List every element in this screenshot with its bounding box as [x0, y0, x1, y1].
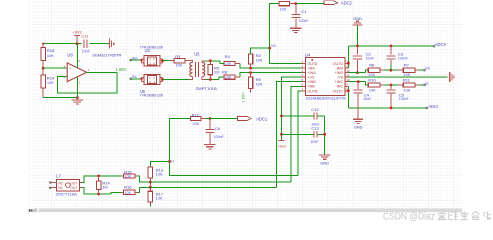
svg-text:R16: R16: [124, 184, 132, 189]
wire O to R13: [150, 162, 169, 167]
resistor R11: [398, 77, 418, 92]
wire +VS to +3v3: [282, 77, 302, 140]
junction +INA row: [249, 71, 252, 74]
svg-text:NC: NC: [58, 186, 63, 190]
scrollbar strip bottom: [29, 208, 462, 212]
wire row 187 to +INB: [150, 186, 276, 188]
capacitor C11: [81, 34, 90, 54]
svg-text:R5: R5: [214, 65, 220, 70]
label U5: [194, 52, 200, 57]
svg-text:ADC1: ADC1: [256, 116, 268, 121]
wire O-net vertical: [170, 119, 299, 176]
wire op-amp ground pin: [76, 77, 78, 98]
wire L7 bottom rail: [83, 188, 121, 194]
svg-text:NC: NC: [58, 181, 63, 185]
svg-text:+INB: +INB: [307, 80, 316, 84]
resistor R17: [148, 191, 164, 206]
junction R1/C1: [294, 2, 297, 5]
wire C13 row: [282, 133, 325, 135]
resistor R8: [219, 69, 240, 79]
svg-text:C11: C11: [81, 34, 89, 39]
wire R11 to I0 stub: [418, 84, 425, 86]
wire C12/C13 join to ground: [323, 116, 326, 155]
svg-text:-IND: -IND: [335, 66, 343, 70]
svg-text:ZMPT101B: ZMPT101B: [196, 86, 218, 91]
wire rail down to OUTD/-IND: [347, 46, 349, 68]
svg-text:U5: U5: [194, 52, 200, 57]
svg-text:10K: 10K: [403, 88, 410, 92]
junction row182: [149, 181, 152, 184]
wire -INC/OUTC down to bottom rail: [347, 86, 349, 108]
junction U3 to R3: [161, 59, 164, 62]
capacitor C4: [354, 82, 372, 108]
node R18/R19 junction: [42, 67, 45, 70]
junction O: [168, 160, 171, 163]
svg-text:10K: 10K: [156, 172, 163, 176]
wire secondary bottom rail: [205, 78, 219, 81]
connector L7 ZMCT118A: [48, 180, 82, 191]
svg-text:OUTC: OUTC: [333, 89, 344, 93]
resistor R19: [41, 68, 55, 97]
resistor R9: [248, 73, 263, 93]
svg-text:R8: R8: [222, 69, 228, 74]
wire OUTA row: [270, 62, 302, 64]
svg-text:-INC: -INC: [335, 85, 343, 89]
junction C2/+IND row: [356, 71, 359, 74]
wire R7 to V0 stub: [418, 69, 425, 71]
resistor R3: [170, 54, 190, 68]
svg-text:10nF: 10nF: [310, 140, 319, 144]
power GND port top: [352, 16, 362, 25]
svg-text:OUTD: OUTD: [333, 62, 344, 66]
wire top rail +3V3 to C11: [43, 43, 109, 45]
svg-text:1.65V: 1.65V: [240, 92, 245, 103]
net label ADCI: [428, 104, 438, 109]
svg-text:ZMCT118A: ZMCT118A: [56, 191, 78, 196]
svg-text:+INC: +INC: [335, 80, 344, 84]
label ZMCT118A: [56, 191, 78, 196]
svg-text:10K: 10K: [47, 54, 54, 58]
ground right of C11: [109, 39, 113, 49]
svg-text:10K: 10K: [47, 81, 54, 85]
svg-text:CSDN @Diaz: CSDN @Diaz: [383, 211, 435, 222]
junction -INA row: [249, 67, 252, 70]
capacitor C12: [311, 107, 320, 126]
wire to ADC2 flag: [296, 3, 324, 5]
svg-text:10K: 10K: [369, 88, 376, 92]
net stub JN+: [130, 59, 143, 61]
junction R14 top: [97, 175, 100, 178]
label SGM321YN5/TR: [92, 53, 121, 58]
svg-text:-VS: -VS: [337, 76, 344, 80]
svg-text:100nF: 100nF: [398, 56, 409, 60]
wire GND stem to rail: [356, 25, 358, 46]
resistor R13: [148, 167, 164, 191]
svg-text:C12: C12: [311, 107, 319, 112]
svg-text:300: 300: [214, 71, 220, 75]
svg-text:10K: 10K: [225, 76, 232, 80]
svg-text:R12: R12: [192, 112, 200, 117]
net label JN+: [131, 55, 139, 60]
junction R10/R11/C5: [390, 84, 393, 87]
capacitor C1: [291, 4, 309, 28]
label U8: [67, 53, 73, 58]
svg-text:R6: R6: [369, 63, 375, 68]
net label 1.65V vertical: [240, 92, 245, 103]
svg-text:OUTB: OUTB: [307, 89, 318, 93]
svg-text:10K: 10K: [125, 191, 132, 195]
wire V0 to R2 top: [251, 48, 270, 54]
svg-text:10K: 10K: [125, 174, 132, 178]
svg-text:U4: U4: [305, 52, 311, 57]
svg-text:ADC2: ADC2: [341, 0, 353, 5]
ground below op-amp U8: [72, 98, 84, 104]
svg-text:10nF: 10nF: [366, 56, 375, 60]
junction OUTC: [347, 90, 350, 93]
wire +IND row jog to R6: [349, 70, 369, 72]
svg-text:-INA: -INA: [307, 66, 315, 70]
wire bottom rail to ADCI: [348, 107, 428, 109]
svg-text:+3v3: +3v3: [277, 143, 286, 148]
svg-text:10K: 10K: [279, 7, 286, 11]
wire op-amp output / feedback loop: [58, 72, 117, 93]
ground below C13: [319, 155, 331, 165]
svg-text:OUTA: OUTA: [307, 62, 318, 66]
svg-text:10nF: 10nF: [363, 97, 372, 101]
wire V0 vertical: [270, 4, 279, 64]
net label V0 right: [425, 65, 431, 70]
wire row 182 to -INB: [150, 181, 290, 183]
svg-text:+IND: +IND: [335, 71, 344, 75]
ground below C6: [204, 145, 216, 149]
wire top rail to ADCV: [348, 45, 435, 47]
svg-text:JN-: JN-: [131, 74, 138, 79]
wire R10 to R11: [383, 84, 398, 86]
label TT44100086-1300 (U6): [140, 94, 163, 98]
svg-text:JN+: JN+: [131, 55, 139, 60]
connector U6: [142, 74, 163, 84]
connector U3: [142, 56, 163, 66]
op-amp U4 SGM8634XS14/TR: [302, 52, 350, 95]
wire secondary top rail: [205, 59, 220, 62]
svg-text:V0: V0: [425, 65, 431, 70]
resistor R10: [368, 77, 383, 92]
svg-text:OUT: OUT: [70, 181, 77, 185]
label TT44100086-1300 (U3): [140, 46, 163, 50]
power +3V3 top-left: [72, 30, 82, 44]
junction C5/bottom rail: [390, 107, 393, 110]
resistor R5: [208, 61, 220, 80]
svg-text:ADCV: ADCV: [435, 42, 447, 47]
svg-text:1.65V: 1.65V: [116, 67, 127, 72]
junction row187: [149, 186, 152, 189]
resistor R4: [220, 54, 240, 66]
svg-text:R11: R11: [403, 77, 411, 82]
net flag ADC1: [238, 116, 268, 121]
svg-text:C13: C13: [311, 126, 319, 131]
svg-text:GND: GND: [354, 125, 363, 130]
capacitor C3: [387, 46, 409, 70]
resistor R2: [248, 53, 263, 68]
svg-text:O: O: [171, 158, 174, 163]
net label ADCV: [435, 42, 447, 47]
resistor R7: [398, 63, 418, 78]
net label I0: [425, 81, 429, 86]
wire R16 jog up: [138, 187, 151, 192]
svg-text:10K: 10K: [256, 83, 263, 87]
svg-text:+VS: +VS: [307, 76, 315, 80]
wire -INB down: [291, 86, 302, 182]
net label V0: [271, 43, 277, 48]
label L7: [56, 174, 61, 179]
svg-text:+INA: +INA: [307, 71, 316, 75]
wire bottom rail to ground: [43, 96, 79, 99]
resistor R1 top: [279, 2, 296, 12]
wire to op-amp non-inverting input: [43, 67, 67, 69]
svg-text:L7: L7: [56, 174, 61, 179]
svg-text:OUT: OUT: [70, 186, 77, 190]
svg-text:TT44100086-1300: TT44100086-1300: [140, 94, 163, 98]
capacitor C13: [310, 126, 319, 145]
wire op-amp power pin: [76, 44, 78, 68]
svg-text:10K: 10K: [225, 62, 232, 66]
wire +INB down: [276, 82, 302, 188]
wire R12 to ADC1: [205, 118, 238, 120]
label U6: [140, 89, 146, 94]
svg-text:R10: R10: [368, 77, 376, 82]
junction +VS/C12: [280, 115, 283, 118]
svg-text:10K: 10K: [256, 59, 263, 63]
resistor R16: [121, 184, 138, 195]
wire OUTB down: [298, 91, 302, 176]
svg-text:C6: C6: [215, 126, 221, 131]
svg-text:R3: R3: [175, 54, 181, 59]
net label O: [171, 158, 174, 163]
op-amp U8 triangle: [63, 59, 89, 85]
wire R15 jog down: [138, 176, 151, 182]
svg-text:R19: R19: [47, 75, 55, 80]
label ZMPT101B: [196, 86, 218, 91]
svg-text:10K: 10K: [192, 122, 199, 126]
svg-text:U8: U8: [67, 53, 73, 58]
resistor R12: [191, 112, 206, 126]
svg-text:R18: R18: [47, 48, 55, 53]
svg-text:R7: R7: [404, 63, 410, 68]
capacitor C2: [353, 46, 375, 73]
junction R14 bottom: [97, 193, 100, 196]
svg-text:SGM321YN5/TR: SGM321YN5/TR: [92, 53, 121, 58]
wire R4 jog to -INA row: [240, 63, 302, 68]
svg-text:TT44100086-1300: TT44100086-1300: [140, 46, 163, 50]
resistor R18: [41, 44, 55, 68]
wire R8 jog to +INA row: [240, 73, 302, 78]
power +3v3 under U4: [277, 140, 286, 148]
svg-text:10K: 10K: [176, 64, 183, 68]
svg-text:R4: R4: [225, 54, 231, 59]
svg-text:300: 300: [102, 186, 108, 190]
junction U6 output: [161, 78, 164, 81]
junction C4/+INC row: [357, 80, 360, 83]
transformer U5 ZMPT101B: [190, 61, 206, 80]
svg-text:C1: C1: [301, 9, 307, 14]
watermark CSDN: [383, 211, 491, 222]
svg-text:ADCI: ADCI: [428, 104, 438, 109]
ground right of -VS: [450, 72, 454, 82]
junction on +3V3 rail: [42, 42, 78, 45]
svg-text:U3: U3: [145, 48, 151, 53]
svg-text:100nF: 100nF: [299, 19, 310, 23]
svg-text:10nF: 10nF: [82, 49, 91, 53]
ground below bottom rail: [353, 108, 363, 130]
resistor R14: [96, 176, 110, 194]
wire R6 to R7: [383, 69, 398, 71]
svg-text:R9: R9: [256, 77, 262, 82]
svg-text:10K: 10K: [156, 197, 163, 201]
wire -VS row to ground: [349, 76, 448, 78]
ground below C1: [290, 28, 302, 32]
resistor R6: [368, 63, 383, 78]
label U3: [145, 48, 151, 53]
wire U6 to transformer: [163, 78, 193, 80]
svg-text:-INB: -INB: [307, 85, 315, 89]
net flag ADC2: [324, 0, 353, 5]
capacitor C6: [205, 119, 224, 145]
resistor R15: [121, 170, 138, 179]
junction rail/C2: [356, 45, 359, 48]
junction V0: [268, 47, 271, 50]
svg-text:GND: GND: [353, 16, 362, 21]
net stub JN-: [130, 78, 143, 80]
junction rail/C3: [390, 45, 393, 48]
wire +INC row jog to R10: [349, 82, 369, 85]
wire L7 top to R14/R15: [83, 176, 121, 183]
svg-text:R2: R2: [256, 53, 262, 58]
junction R12/C6: [209, 117, 212, 120]
net label JN-: [131, 74, 138, 79]
net label 1.65V: [116, 67, 127, 72]
svg-text:SGM8634XS14/TR: SGM8634XS14/TR: [306, 96, 346, 101]
junction +VS/C13: [280, 133, 283, 136]
junction OUTD: [347, 62, 350, 65]
capacitor C5: [387, 85, 410, 108]
svg-text:+: +: [69, 66, 71, 70]
svg-text:100nF: 100nF: [214, 135, 225, 139]
svg-text:GND: GND: [320, 160, 329, 165]
svg-text:100nF: 100nF: [399, 97, 410, 101]
junction R6/R7/C3: [390, 69, 393, 72]
label SGM8634XS14/TR: [306, 96, 346, 101]
wire U3 to R3: [163, 60, 170, 62]
wire C12 row: [282, 115, 325, 117]
svg-text:V0: V0: [271, 43, 277, 48]
